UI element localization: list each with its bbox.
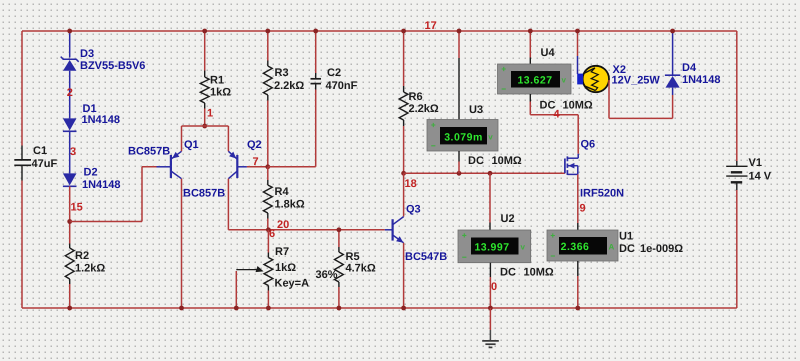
svg-text:Q1: Q1 xyxy=(184,139,199,151)
instrument U2 lead top xyxy=(489,223,491,231)
svg-text:1kΩ: 1kΩ xyxy=(210,87,231,99)
capacitor C1 xyxy=(21,146,23,160)
junction Q1 collector bottom rail xyxy=(179,306,184,311)
junction R1 top rail xyxy=(202,29,207,34)
svg-text:17: 17 xyxy=(425,20,437,32)
svg-text:R7: R7 xyxy=(275,246,289,258)
junction R5 bottom rail xyxy=(337,306,342,311)
wire R2 to bottom rail xyxy=(69,284,71,308)
wire right rail upper segment (V1 top) xyxy=(736,31,738,161)
svg-text:Q3: Q3 xyxy=(406,204,421,216)
wire top rail to X2 xyxy=(577,31,579,56)
wire R5 to bottom rail xyxy=(338,287,340,308)
resistor R1 xyxy=(204,71,206,78)
svg-text:Key=A: Key=A xyxy=(275,278,310,290)
resistor R2 xyxy=(69,244,71,249)
svg-text:U2: U2 xyxy=(501,213,515,225)
svg-text:2.2kΩ: 2.2kΩ xyxy=(409,103,439,115)
wire diode column blue lead (net 17 to D3) xyxy=(69,31,71,58)
wire node 18 to U2 xyxy=(489,173,491,222)
wire node 7 to R4 xyxy=(267,167,269,180)
wire top rail to R1 xyxy=(204,31,206,71)
transistor Q2 BC857B xyxy=(236,155,238,178)
wire ground stem xyxy=(489,308,491,330)
wire U4 bottom to node 4 xyxy=(530,102,578,154)
diode D2 xyxy=(63,173,77,185)
svg-text:R1: R1 xyxy=(210,75,224,87)
zener diode D3 xyxy=(61,57,79,62)
wire node 2 (D3 to D1) xyxy=(69,71,71,119)
svg-text:20: 20 xyxy=(277,219,289,231)
svg-text:D2: D2 xyxy=(84,167,98,179)
svg-text:V1: V1 xyxy=(749,157,762,169)
svg-text:0: 0 xyxy=(491,281,497,293)
lamp X2 lead xyxy=(577,56,579,74)
diode D4 xyxy=(665,74,680,76)
junction R2 bottom xyxy=(67,306,72,311)
svg-text:12V_25W: 12V_25W xyxy=(612,75,661,87)
wire node 18 to Q3 collector xyxy=(403,173,405,216)
wire top rail (net 17) xyxy=(22,30,737,32)
svg-text:DC: DC xyxy=(619,243,635,255)
wire Q1 emitter vertical xyxy=(181,126,183,151)
svg-text:U1: U1 xyxy=(619,231,633,243)
svg-text:R6: R6 xyxy=(409,91,423,103)
svg-text:R5: R5 xyxy=(346,251,360,263)
junction D4 top rail xyxy=(670,29,675,34)
wire top rail to R3 xyxy=(267,31,269,61)
wire top rail to U4 xyxy=(529,31,531,58)
svg-text:Q2: Q2 xyxy=(247,139,262,151)
instrument U4 box xyxy=(498,64,572,94)
svg-text:U4: U4 xyxy=(541,47,556,59)
junction U2 bottom rail xyxy=(488,306,493,311)
svg-text:2.2kΩ: 2.2kΩ xyxy=(274,80,304,92)
wire top rail to R6 xyxy=(403,31,405,86)
transistor Q1 BC857B xyxy=(170,155,172,178)
wire Q2 emitter vertical xyxy=(227,126,229,151)
svg-text:47uF: 47uF xyxy=(32,158,58,170)
junction U2 top node 18 xyxy=(488,171,493,176)
wire right rail lower segment (V1 bottom) xyxy=(736,190,738,308)
wire R3 to node 7 xyxy=(267,101,269,167)
wire bottom rail (net 0) xyxy=(22,307,737,309)
svg-text:C1: C1 xyxy=(33,145,47,157)
junction Q3 emitter bottom rail xyxy=(401,306,406,311)
wire U1 bottom to ground rail xyxy=(577,276,579,308)
wire R6 to node 18 xyxy=(403,126,405,173)
svg-text:4.7kΩ: 4.7kΩ xyxy=(346,263,376,275)
junction R5 top xyxy=(337,227,342,232)
svg-text:10MΩ: 10MΩ xyxy=(563,100,593,112)
transistor Q6 IRF520N xyxy=(564,159,566,174)
wire node 18 to Q6 gate xyxy=(404,172,565,174)
resistor R5 xyxy=(338,247,340,252)
svg-text:1N4148: 1N4148 xyxy=(682,74,721,86)
svg-text:BC547B: BC547B xyxy=(405,251,447,263)
svg-text:1: 1 xyxy=(207,108,213,120)
svg-text:R3: R3 xyxy=(275,67,289,79)
svg-text:DC: DC xyxy=(500,267,516,279)
wire node 15 branch to Q1 base xyxy=(70,167,157,222)
instrument U4 lead top xyxy=(529,58,531,65)
wire U3 bottom to node 18 xyxy=(458,162,460,174)
svg-text:470nF: 470nF xyxy=(326,80,358,92)
junction R3 top rail xyxy=(265,29,270,34)
svg-text:v: v xyxy=(562,76,567,85)
svg-text:10MΩ: 10MΩ xyxy=(492,155,522,167)
potentiometer R7 wiper arrow xyxy=(236,269,256,271)
transistor Q3 BC547B xyxy=(392,219,394,240)
svg-text:1kΩ: 1kΩ xyxy=(275,262,296,274)
instrument U2 box xyxy=(458,230,531,263)
svg-text:1.8kΩ: 1.8kΩ xyxy=(275,199,305,211)
svg-text:1N4148: 1N4148 xyxy=(82,179,121,191)
svg-text:14 V: 14 V xyxy=(749,171,772,183)
svg-text:R4: R4 xyxy=(275,186,290,198)
wire X2 right to D4 xyxy=(609,80,673,118)
wire R1 to node 1 xyxy=(204,109,206,127)
diode D1 xyxy=(63,118,77,130)
wire R7 to bottom rail xyxy=(267,291,269,309)
svg-text:v: v xyxy=(488,133,493,142)
junction node 15 xyxy=(67,219,72,224)
junction R7 bottom rail xyxy=(266,306,271,311)
instrument U1 lead bottom xyxy=(577,261,579,276)
wire left rail lower segment xyxy=(21,181,23,309)
wire R4 to node 6 xyxy=(267,219,269,230)
svg-text:15: 15 xyxy=(71,202,83,214)
svg-text:R2: R2 xyxy=(75,250,89,262)
instrument U1 lead top xyxy=(577,223,579,230)
svg-text:U3: U3 xyxy=(469,104,483,116)
resistor R4 xyxy=(267,180,269,185)
wire Q2 base to node 7 xyxy=(247,166,268,168)
junction U4 top rail xyxy=(528,29,533,34)
wire emitter rail of Q1 Q2 xyxy=(182,125,229,127)
wire Q6 source to U1 xyxy=(577,174,579,223)
wire node 6 to R7 xyxy=(267,230,269,253)
wire top rail to U3 xyxy=(458,31,460,58)
junction U1 bottom rail xyxy=(575,306,580,311)
svg-text:BC857B: BC857B xyxy=(128,146,170,158)
diode D4 lead xyxy=(672,31,674,95)
svg-text:2.366: 2.366 xyxy=(561,241,590,253)
wire U2 bottom to ground rail xyxy=(489,277,491,308)
svg-text:9: 9 xyxy=(580,203,586,215)
svg-text:Q6: Q6 xyxy=(581,139,596,151)
wire R7 wiper to bottom rail xyxy=(235,271,237,308)
svg-text:13.997: 13.997 xyxy=(474,241,509,253)
battery V1 xyxy=(736,161,738,166)
svg-text:BZV55-B5V6: BZV55-B5V6 xyxy=(80,60,145,72)
capacitor C2 xyxy=(315,73,317,78)
svg-text:v: v xyxy=(521,243,526,252)
svg-text:18: 18 xyxy=(405,178,417,190)
resistor R3 xyxy=(267,61,269,67)
wire Q1 collector to bottom rail xyxy=(181,179,183,308)
junction X2 top rail xyxy=(575,29,580,34)
instrument U3 box xyxy=(427,120,498,152)
svg-text:10MΩ: 10MΩ xyxy=(524,267,554,279)
svg-text:13.627: 13.627 xyxy=(517,75,552,87)
instrument U1 box xyxy=(547,230,618,261)
wire left rail upper segment xyxy=(21,31,23,146)
svg-text:DC: DC xyxy=(468,155,484,167)
svg-text:2: 2 xyxy=(67,87,73,99)
junction node 18 xyxy=(401,171,406,176)
lamp X2 xyxy=(583,66,609,92)
instrument U3 lead top xyxy=(458,58,460,120)
svg-text:4: 4 xyxy=(554,109,561,121)
junction D3 top rail xyxy=(67,29,72,34)
wire node 3 (D1 to D2) xyxy=(69,131,71,173)
junction node 1 xyxy=(202,124,207,129)
wire C2 to node 7 xyxy=(268,90,316,167)
ground xyxy=(489,330,491,341)
svg-text:IRF520N: IRF520N xyxy=(580,188,624,200)
junction node 6 R7 top xyxy=(266,227,271,232)
svg-text:D3: D3 xyxy=(80,48,94,60)
junction U3 top rail xyxy=(457,29,462,34)
svg-text:1e-009Ω: 1e-009Ω xyxy=(640,243,683,255)
junction node 7 xyxy=(265,164,270,169)
svg-text:D4: D4 xyxy=(682,62,697,74)
instrument U4 lead bottom xyxy=(529,94,531,102)
wire Q2 collector down xyxy=(227,179,229,230)
junction R7 wiper bottom rail xyxy=(234,306,239,311)
svg-text:1.2kΩ: 1.2kΩ xyxy=(75,263,105,275)
wire top rail to C2 xyxy=(315,31,317,73)
junction C2 top rail xyxy=(313,29,318,34)
svg-text:BC857B: BC857B xyxy=(183,187,225,199)
wire node 6 horizontal (to Q3 base) xyxy=(228,229,384,231)
svg-text:A: A xyxy=(609,243,615,252)
junction U3 bottom node 18 xyxy=(457,171,462,176)
wire D2 to node 15 xyxy=(69,186,71,243)
resistor R6 xyxy=(403,86,405,92)
wire Q3 emitter to bottom rail xyxy=(403,243,405,308)
svg-text:3.079m: 3.079m xyxy=(444,132,483,144)
instrument U3 lead bottom xyxy=(458,151,460,162)
wire node 6 to R5 xyxy=(338,230,340,247)
svg-text:C2: C2 xyxy=(327,67,341,79)
resistor R7 potentiometer xyxy=(267,253,269,258)
instrument U2 lead bottom xyxy=(489,263,491,277)
junction R6 top rail xyxy=(401,29,406,34)
svg-text:3: 3 xyxy=(70,146,76,158)
svg-text:1N4148: 1N4148 xyxy=(82,114,121,126)
